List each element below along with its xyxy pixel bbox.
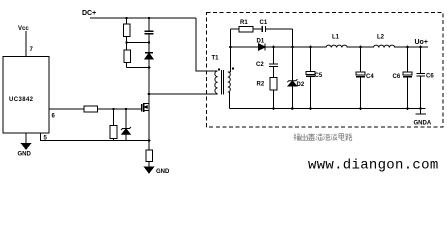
ground (left, IC): [22, 144, 31, 150]
svg-text:GND: GND: [156, 169, 170, 175]
caption 输出整流滤波电路 (drawn as strokes): [294, 134, 353, 141]
transformer T1 primary winding: [215, 71, 218, 94]
capacitor C1 (snubber): [261, 26, 263, 32]
resistor R1 (snubber): [239, 26, 253, 32]
node junction C6b top: [419, 46, 422, 49]
capacitor C2: [273, 47, 275, 64]
node junction clamp R top: [125, 17, 127, 19]
svg-text:7: 7: [30, 47, 34, 53]
wire snubber row: [230, 29, 232, 47]
wire secondary bottom: [228, 92, 230, 109]
svg-text:L2: L2: [377, 35, 385, 41]
wire drain node to primary bottom: [149, 93, 218, 95]
node junction R3 top: [112, 108, 114, 110]
resistor R5 (source sense): [148, 141, 150, 151]
capacitor C3 (clamp): [148, 18, 150, 31]
ground (GNDA, output): [420, 109, 422, 114]
svg-text:R2: R2: [257, 82, 265, 88]
wire GND pin: [25, 133, 27, 144]
wire DC+ rail: [90, 17, 196, 19]
diode D1 (rectifier): [259, 44, 266, 50]
svg-text:C6: C6: [426, 74, 434, 80]
wire clamp bottom: [127, 67, 150, 69]
svg-text:6: 6: [52, 114, 56, 120]
wire pin 6 to gate: [49, 108, 142, 110]
svg-text:R1: R1: [240, 20, 248, 26]
wire output top rail: [231, 46, 429, 48]
node junction clamp-drain: [148, 66, 151, 69]
svg-text:www.diangon.com: www.diangon.com: [308, 158, 439, 174]
transformer T1 secondary winding: [228, 72, 231, 92]
node junction clamp C top: [148, 17, 150, 19]
resistor R2: [270, 78, 277, 91]
svg-text:Uo+: Uo+: [415, 39, 428, 46]
capacitor C6b: [420, 47, 422, 73]
node junction source: [148, 139, 151, 142]
svg-text:DC+: DC+: [82, 10, 96, 17]
inductor L2: [373, 46, 394, 47]
svg-text:D1: D1: [257, 39, 265, 45]
diode D2 zener: [291, 47, 293, 81]
node polarity dot secondary: [232, 68, 234, 70]
node junction secondary top: [229, 46, 232, 49]
capacitor C6a electrolytic: [407, 47, 409, 72]
node junction C5 top: [309, 46, 312, 49]
node junction C2 top: [272, 46, 275, 49]
svg-text:C5: C5: [315, 73, 323, 79]
svg-text:L1: L1: [332, 35, 340, 41]
node junction D2 bottom: [291, 107, 294, 110]
capacitor C5 electrolytic: [310, 47, 312, 71]
diode D3 zener (gate): [125, 109, 127, 129]
wire output bottom rail: [230, 108, 426, 110]
capacitor C4 electrolytic: [360, 47, 362, 72]
wire secondary top riser: [228, 47, 231, 72]
node junction GNDA: [419, 107, 422, 110]
resistor R2 (clamp lower): [126, 43, 128, 51]
transformer T1 core: [221, 70, 223, 95]
node junction D2 top: [291, 46, 294, 49]
svg-text:D2: D2: [297, 82, 305, 88]
transistor Q1 MOSFET: [141, 104, 143, 111]
resistor R4 (gate series): [84, 106, 98, 112]
node junction drain: [148, 93, 151, 96]
svg-text:Vcc: Vcc: [18, 26, 29, 32]
wire DC+ to primary top: [196, 18, 218, 71]
svg-text:C1: C1: [260, 20, 268, 26]
svg-text:GNDA: GNDA: [414, 121, 432, 127]
dashed enclosure (output rectifier filter): [207, 13, 444, 128]
resistor R1 (clamp upper): [126, 18, 128, 24]
node junction C2R2 bottom: [272, 107, 275, 110]
node junction C6a top: [406, 46, 409, 49]
wire clamp mid: [127, 42, 150, 44]
wire pin 5: [41, 133, 149, 141]
diode D4 (clamp): [148, 43, 150, 53]
node junction C6a bottom: [406, 107, 409, 110]
svg-text:GND: GND: [18, 152, 32, 158]
svg-text:C4: C4: [366, 74, 374, 80]
resistor R3 (gate pulldown): [113, 109, 115, 126]
svg-text:C2: C2: [256, 62, 264, 68]
svg-text:T1: T1: [212, 56, 220, 62]
node junction D3 top: [125, 108, 127, 110]
inductor L1: [326, 46, 347, 47]
node junction C4 top: [359, 46, 362, 49]
wire Vcc to pin 7: [25, 31, 27, 57]
node junction C4 bottom: [359, 107, 362, 110]
op-amp U1 UC3842 box: [3, 57, 49, 134]
wire clamp to drain node: [148, 68, 150, 95]
svg-text:UC3842: UC3842: [9, 97, 34, 103]
svg-text:C6: C6: [393, 74, 401, 80]
ground (source resistor): [145, 167, 154, 173]
node junction C5 bottom: [309, 107, 312, 110]
wire drain stub: [148, 94, 150, 104]
wire snubber right riser: [292, 29, 294, 47]
node polarity dot primary: [218, 69, 220, 71]
